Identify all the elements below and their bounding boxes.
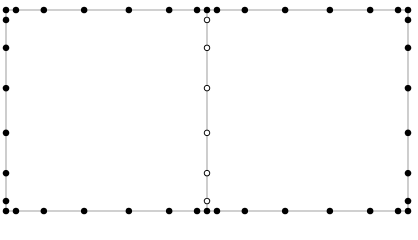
node B29: boundary node bottom edge <box>395 208 402 215</box>
node B3: boundary node top edge <box>41 7 48 14</box>
node B42: boundary node right edge <box>405 198 412 205</box>
wire: top edge <box>6 9 408 11</box>
node I3: interface node (open) on shared edge <box>204 85 210 91</box>
node I2: interface node (open) on shared edge <box>204 45 210 51</box>
node B4: boundary node top edge <box>81 7 88 14</box>
wire: right edge <box>407 10 409 211</box>
node B5: boundary node top edge <box>126 7 133 14</box>
node B39: boundary node right edge <box>405 85 412 92</box>
node B17: boundary node bottom edge <box>13 208 20 215</box>
node B16: boundary node bottom edge <box>3 208 10 215</box>
node B28: boundary node bottom edge <box>367 208 374 215</box>
node B34: boundary node left edge <box>3 130 10 137</box>
node B24: boundary node bottom edge <box>214 208 221 215</box>
node B13: boundary node top edge <box>367 7 374 14</box>
node B33: boundary node left edge <box>3 85 10 92</box>
node B32: boundary node left edge <box>3 45 10 52</box>
node B7: boundary node top edge <box>194 7 201 14</box>
node B21: boundary node bottom edge <box>166 208 173 215</box>
node B37: boundary node right edge <box>405 17 412 24</box>
node B26: boundary node bottom edge <box>282 208 289 215</box>
node B41: boundary node right edge <box>405 170 412 177</box>
node B11: boundary node top edge <box>282 7 289 14</box>
node B31: boundary node left edge <box>3 17 10 24</box>
node I5: interface node (open) on shared edge <box>204 170 210 176</box>
node B22: boundary node bottom edge <box>194 208 201 215</box>
node B18: boundary node bottom edge <box>41 208 48 215</box>
node B14: boundary node top edge <box>395 7 402 14</box>
node B2: boundary node top edge <box>13 7 20 14</box>
wire: bottom edge <box>6 210 408 212</box>
node B38: boundary node right edge <box>405 45 412 52</box>
node B12: boundary node top edge <box>327 7 334 14</box>
node B6: boundary node top edge <box>166 7 173 14</box>
node I6: interface node (open) on shared edge <box>204 198 210 204</box>
node B27: boundary node bottom edge <box>327 208 334 215</box>
node B19: boundary node bottom edge <box>81 208 88 215</box>
node B30: boundary node bottom edge <box>405 208 412 215</box>
node B35: boundary node left edge <box>3 170 10 177</box>
node B23: boundary node bottom edge <box>204 208 211 215</box>
node B10: boundary node top edge <box>242 7 249 14</box>
wire: left edge <box>5 10 7 211</box>
node B8: boundary node top edge <box>204 7 211 14</box>
node B1: boundary node top edge <box>3 7 10 14</box>
node B20: boundary node bottom edge <box>126 208 133 215</box>
node B36: boundary node left edge <box>3 198 10 205</box>
node I4: interface node (open) on shared edge <box>204 130 210 136</box>
wire: interface line between element 1 and element 2 <box>206 10 208 211</box>
node B15: boundary node top edge <box>405 7 412 14</box>
node B40: boundary node right edge <box>405 130 412 137</box>
node B25: boundary node bottom edge <box>242 208 249 215</box>
node I1: interface node (open) on shared edge <box>204 17 210 23</box>
node B9: boundary node top edge <box>214 7 221 14</box>
